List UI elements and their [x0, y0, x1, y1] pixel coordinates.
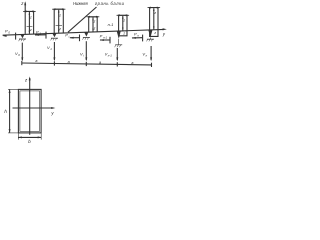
svg-text:a: a: [131, 61, 133, 65]
section z axis: [29, 78, 31, 135]
ground i: [83, 37, 90, 39]
support wedge n: [148, 30, 152, 38]
svg-text:b: b: [28, 139, 31, 144]
section y axis: [13, 107, 54, 109]
y axis arrowhead: [163, 28, 167, 30]
svg-text:z: z: [93, 27, 96, 31]
svg-text:z: z: [29, 15, 32, 19]
svg-text:z: z: [153, 31, 156, 35]
svg-text:Нижняя: Нижняя: [73, 1, 88, 6]
svg-text:z: z: [93, 20, 96, 24]
rib 1 inner dimension: [58, 10, 60, 33]
rib n-1 (straddles axis): [119, 15, 127, 36]
rib i inner dimension: [92, 17, 94, 31]
ground 0: [19, 38, 26, 40]
spacing dimension line: [22, 63, 152, 65]
force Pn arrow: [132, 37, 142, 39]
rib i: [89, 17, 98, 32]
reaction Vn-1 arrow: [116, 48, 118, 60]
svg-text:n: n: [137, 34, 139, 38]
svg-text:z: z: [58, 13, 61, 17]
svg-text:z: z: [24, 77, 28, 82]
rib 1: [54, 9, 63, 33]
force Pn-1 arrow: [100, 39, 110, 41]
svg-text:i: i: [83, 53, 84, 57]
rib 0: [25, 11, 33, 34]
svg-text:n: n: [146, 54, 148, 58]
support wedge n-1: [117, 31, 121, 39]
svg-text:грань: грань: [95, 1, 109, 6]
rib n-1 inner dimension: [122, 16, 124, 31]
rib i top edge arrowheads: [87, 16, 90, 18]
svg-text:z: z: [58, 27, 61, 31]
rib n inner dimension: [153, 8, 155, 29]
svg-text:n-1: n-1: [103, 35, 107, 39]
svg-text:a: a: [35, 59, 37, 63]
svg-text:0: 0: [18, 53, 20, 57]
b dimension: [18, 136, 41, 138]
reaction Vn arrow: [150, 46, 152, 60]
rib 1 top edge arrowheads: [52, 8, 55, 10]
support wedge 1: [52, 33, 56, 37]
rib n (straddles axis): [150, 8, 158, 37]
ground 1: [51, 37, 58, 39]
support wedge 0: [20, 34, 24, 38]
leader line to beam bottom face: [68, 7, 97, 32]
svg-text:0: 0: [8, 31, 10, 35]
rib 0 top edge arrowheads: [23, 10, 26, 12]
svg-text:z: z: [153, 11, 156, 15]
svg-text:балки: балки: [111, 1, 125, 6]
ground n: [147, 38, 154, 40]
svg-text:y: y: [50, 111, 54, 116]
svg-text:n-1: n-1: [108, 53, 112, 57]
svg-text:i: i: [69, 35, 70, 39]
reaction V1 arrow: [53, 42, 55, 60]
force P0 arrow: [2, 35, 6, 37]
svg-text:h: h: [4, 109, 7, 114]
force P1 arrow: [35, 34, 46, 36]
cross-section outer rect: [18, 89, 41, 132]
h dimension: [9, 90, 11, 133]
cross-section inner rect: [20, 91, 40, 131]
svg-text:z: z: [20, 1, 24, 6]
note text: Нижняя грань балки: [73, 1, 125, 6]
reaction V0 arrow: [21, 43, 23, 60]
rib 0 inner dimension z1: [28, 12, 30, 34]
force Pi arrow: [70, 37, 79, 39]
svg-text:n-1: n-1: [108, 22, 114, 27]
reaction Vi arrow: [85, 41, 87, 60]
beam axis (bottom face, y axis): [3, 29, 164, 35]
rib n-1 top edge arrowheads: [117, 14, 120, 16]
svg-text:y: y: [162, 32, 166, 37]
svg-text:a: a: [99, 60, 101, 64]
z axis at rib 0: [24, 3, 26, 34]
svg-text:a: a: [68, 60, 70, 64]
ground n-1: [115, 44, 122, 46]
svg-text:1: 1: [50, 47, 52, 51]
support wedge i: [84, 32, 88, 36]
svg-text:z: z: [29, 28, 32, 32]
rib n top edge arrowheads: [148, 7, 151, 9]
svg-text:z: z: [122, 32, 125, 36]
svg-text:z: z: [122, 18, 125, 22]
